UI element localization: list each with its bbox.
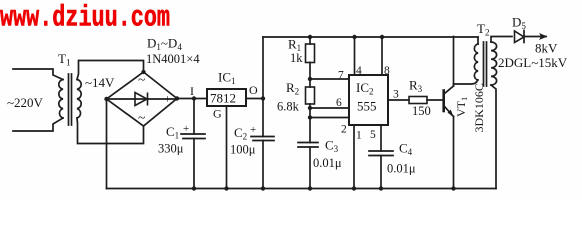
- node pin1 ground: [352, 186, 356, 190]
- svg-text:C3: C3: [325, 138, 339, 155]
- capacitor C2 bottom lead: [262, 141, 264, 189]
- diode D5 output lead: [525, 36, 546, 38]
- wire 555 pin5 to C4: [380, 125, 382, 151]
- svg-text:VT1: VT1: [454, 97, 469, 117]
- node bridge right: [175, 96, 179, 100]
- wire +12V riser and C2 top lead: [262, 37, 264, 137]
- wire 555 pin6: [310, 107, 349, 109]
- capacitor C2 plates: [251, 137, 274, 141]
- svg-text:8kV: 8kV: [535, 41, 558, 56]
- +12V rail (top): [263, 36, 478, 38]
- svg-text:IC1: IC1: [218, 70, 236, 87]
- svg-text:I: I: [190, 84, 194, 98]
- svg-text:C1: C1: [166, 124, 179, 141]
- diode bar inside bridge: [147, 93, 149, 106]
- capacitor C3 top lead: [309, 118, 311, 143]
- svg-text:T2: T2: [477, 21, 489, 38]
- transformer T2 primary lead: [477, 37, 479, 44]
- transistor VT1 base bar: [442, 91, 445, 112]
- output arrowhead 8kV: [539, 33, 548, 40]
- svg-text:3: 3: [393, 89, 399, 101]
- svg-text:D1~D4: D1~D4: [147, 36, 182, 53]
- node R1-R2 junction: [308, 77, 312, 81]
- wire T1 secondary top to bridge AC top: [77, 61, 144, 80]
- node I input of IC1: [192, 96, 196, 100]
- svg-text:+: +: [183, 123, 189, 135]
- node emitter ground: [451, 186, 455, 190]
- bridge rectifier D1-D4 diamond: [107, 72, 178, 126]
- svg-text:7: 7: [338, 70, 344, 82]
- svg-text:6: 6: [336, 97, 342, 109]
- svg-text:IC2: IC2: [356, 80, 374, 97]
- transformer T2 secondary winding: [491, 42, 497, 85]
- node pin4 on rail: [352, 35, 356, 39]
- transformer T1 core: [69, 74, 72, 125]
- resistor R1 leads: [309, 37, 311, 79]
- resistor R2 leads: [309, 79, 311, 118]
- svg-text:3DK106C: 3DK106C: [472, 83, 486, 132]
- svg-text:7812: 7812: [210, 91, 236, 106]
- wire 555 pin7: [310, 78, 349, 80]
- transformer T1 secondary winding: [77, 80, 81, 119]
- svg-text:8: 8: [384, 65, 390, 77]
- svg-text:1: 1: [356, 130, 362, 142]
- transistor VT1 emitter: [445, 107, 454, 117]
- capacitor C1 plates: [181, 134, 205, 139]
- svg-text:R2: R2: [286, 80, 299, 97]
- svg-text:6.8k: 6.8k: [277, 100, 300, 114]
- node R1 top on rail: [308, 35, 312, 39]
- node C1 ground: [192, 186, 196, 190]
- capacitor C3 plates: [298, 143, 318, 148]
- wire R3 to VT1 base: [427, 99, 444, 101]
- svg-text:T1: T1: [58, 51, 70, 68]
- node C3 ground: [308, 186, 312, 190]
- resistor R2 body: [306, 87, 315, 104]
- svg-text:O: O: [249, 83, 258, 97]
- svg-text:~: ~: [138, 72, 145, 87]
- svg-text:~220V: ~220V: [7, 95, 44, 110]
- capacitor C1 leads: [193, 99, 195, 189]
- svg-text:1k: 1k: [290, 51, 303, 65]
- svg-text:~: ~: [138, 110, 145, 125]
- wire T2 primary bottom to collector: [454, 80, 478, 84]
- wire bridge negative output down: [106, 99, 108, 189]
- diode D5 triangle: [515, 31, 525, 43]
- svg-text:0.01μ: 0.01μ: [313, 156, 342, 170]
- resistor R1 body: [306, 44, 315, 63]
- svg-text:C4: C4: [399, 141, 413, 158]
- svg-text:www.dziuu.com: www.dziuu.com: [0, 2, 170, 36]
- transformer T2 core: [484, 42, 487, 86]
- svg-text:R3: R3: [409, 78, 423, 95]
- node C2 ground: [261, 186, 265, 190]
- svg-text:100μ: 100μ: [230, 143, 256, 157]
- wire T1 secondary bottom to bridge AC bottom: [77, 118, 144, 144]
- node R2-pin6 junction: [308, 106, 312, 110]
- wire 555 pin3 to R3: [388, 99, 409, 101]
- wire IC1 output: [246, 98, 263, 100]
- node bridge left: [104, 97, 108, 101]
- svg-text:+: +: [164, 92, 171, 106]
- resistor R3 body: [409, 97, 427, 104]
- svg-text:150: 150: [412, 104, 431, 118]
- capacitor C4 plates: [369, 151, 393, 156]
- transistor VT1 collector: [445, 86, 454, 94]
- node C4 ground: [379, 186, 383, 190]
- svg-text:C2: C2: [234, 125, 247, 142]
- wire VT1 emitter to ground: [453, 117, 455, 189]
- bridge rectifier inner diode lead: [107, 98, 178, 100]
- IC2 555 body: [349, 75, 388, 125]
- svg-text:0.01μ: 0.01μ: [387, 162, 416, 176]
- node O output of IC1: [261, 96, 265, 100]
- wire 555 pin2: [310, 117, 349, 119]
- wire 555 pin1: [353, 125, 355, 189]
- svg-text:330μ: 330μ: [158, 142, 184, 156]
- transistor VT1 emitter arrowhead: [448, 110, 454, 118]
- svg-text:~14V: ~14V: [85, 75, 115, 90]
- wire IC1 ground lead: [226, 106, 228, 189]
- wire T2 secondary bottom to ground: [491, 85, 496, 189]
- svg-text:1N4001×4: 1N4001×4: [146, 52, 200, 66]
- wire 555 pin8: [381, 37, 383, 75]
- node pin8 on rail: [380, 35, 384, 39]
- svg-text:2: 2: [341, 124, 347, 136]
- capacitor C3 bottom lead: [309, 147, 311, 189]
- node pin2 junction: [308, 115, 312, 119]
- svg-text:+: +: [250, 124, 256, 136]
- diode D5 bar: [523, 31, 525, 43]
- svg-text:4: 4: [356, 65, 362, 77]
- transformer T2 primary winding: [474, 44, 478, 80]
- wire 555 pin4: [354, 37, 356, 75]
- wire T2 secondary top to D5: [491, 37, 512, 43]
- capacitor C4 bottom lead: [380, 156, 382, 189]
- svg-text:D5: D5: [512, 15, 526, 32]
- wire bridge positive output to IC1 input: [177, 98, 207, 100]
- wire T1 primary top lead: [13, 69, 63, 80]
- wire T1 primary bottom lead: [13, 118, 63, 131]
- transformer T1 primary winding: [59, 80, 63, 119]
- svg-text:G: G: [213, 107, 222, 121]
- svg-text:5: 5: [370, 129, 376, 141]
- svg-text:555: 555: [357, 99, 377, 114]
- node G ground: [224, 186, 228, 190]
- ground rail (bottom): [107, 188, 497, 190]
- wire VT1 collector riser: [453, 37, 455, 87]
- svg-text:2DGL~15kV: 2DGL~15kV: [498, 55, 568, 70]
- diode inside bridge: [135, 93, 147, 106]
- IC1 7812 body: [207, 89, 246, 106]
- node bridge top: [141, 70, 145, 74]
